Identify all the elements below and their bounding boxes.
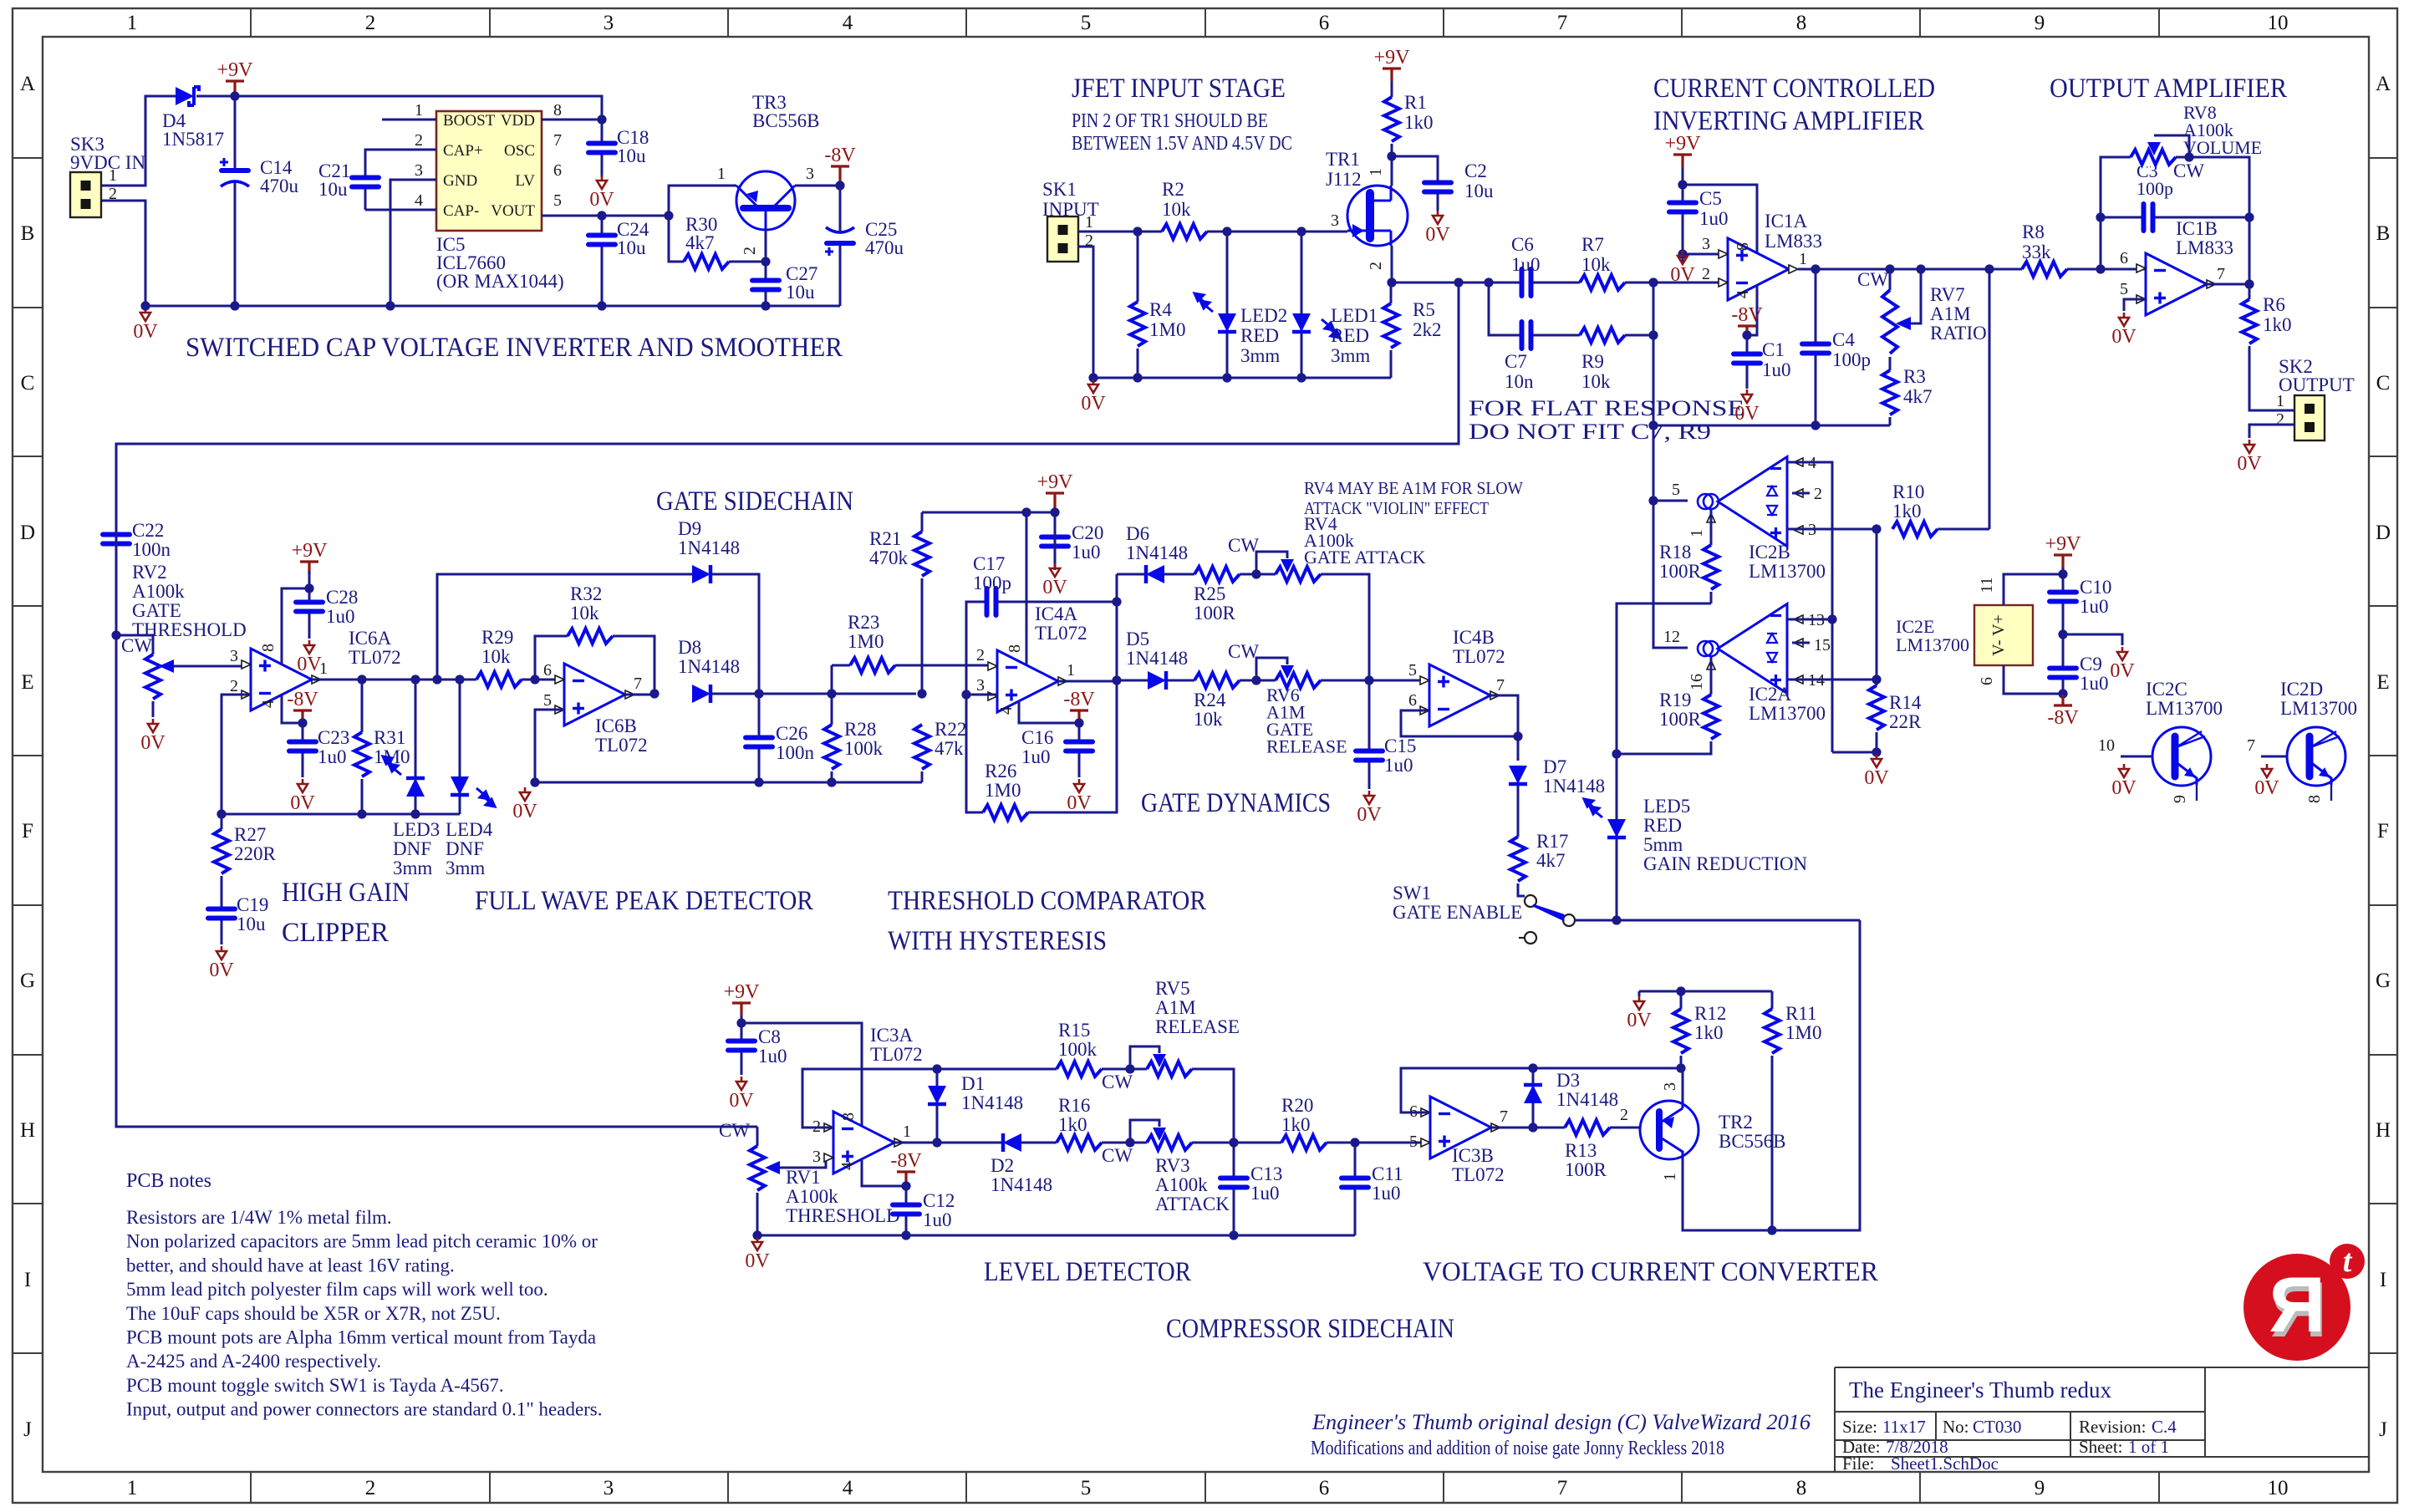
wire 0V stub: [1638, 991, 1641, 996]
wire R31 stem: [361, 680, 364, 814]
wire R23 left riser: [831, 665, 833, 694]
junction R7 node: [1648, 277, 1658, 287]
svg-text:IC2D: IC2D: [2280, 679, 2323, 700]
svg-text:10u: 10u: [786, 282, 815, 303]
svg-text:TL072: TL072: [595, 735, 648, 756]
svg-text:R17: R17: [1536, 831, 1568, 852]
svg-text:7: 7: [1496, 676, 1505, 695]
wire IC3A out row: [894, 1142, 1003, 1144]
resistor R24 10k: [1194, 671, 1240, 690]
resistor R6 1k0: [2240, 299, 2259, 346]
svg-text:7: 7: [1557, 1477, 1568, 1499]
junction RV4 cw: [1251, 569, 1261, 578]
transistor IC2D LM13700: [2287, 727, 2345, 786]
junction dots rail2: [901, 1230, 910, 1240]
svg-text:CW: CW: [719, 1120, 750, 1141]
wire LED1 stem: [1301, 232, 1303, 378]
svg-text:10: 10: [2098, 736, 2115, 755]
svg-text:0V: 0V: [1425, 224, 1450, 246]
svg-text:D3: D3: [1556, 1070, 1580, 1091]
wire IC3B out: [1491, 1127, 1565, 1129]
junction -8V node: [835, 181, 844, 190]
capacitor C12 1u0: [892, 1203, 920, 1216]
junction RV5 cw: [1125, 1064, 1134, 1073]
svg-text:3: 3: [812, 1148, 821, 1166]
svg-text:TL072: TL072: [1453, 646, 1505, 667]
svg-text:GATE ENABLE: GATE ENABLE: [1393, 902, 1522, 923]
junction RV8 cw: [2184, 152, 2193, 161]
junction dots fb row: [1528, 1063, 1537, 1072]
svg-text:1M0: 1M0: [985, 780, 1021, 801]
resistor R2 10k: [1162, 222, 1207, 241]
op-amp IC6B TL072: [564, 664, 625, 725]
resistor R18 100R: [1702, 545, 1720, 592]
svg-text:3: 3: [230, 647, 238, 665]
wire pin13 gnd link: [1832, 751, 1877, 754]
svg-text:1u0: 1u0: [318, 746, 347, 767]
capacitor C25 470u: [826, 231, 854, 246]
ground 0V under SK1: [1088, 379, 1098, 393]
svg-text:SK1: SK1: [1042, 179, 1077, 200]
svg-text:-8V: -8V: [287, 689, 318, 710]
svg-text:I: I: [24, 1269, 31, 1291]
svg-text:3mm: 3mm: [393, 858, 432, 878]
svg-text:RED: RED: [1331, 325, 1369, 346]
junction GND rail: [385, 301, 395, 310]
wire R22 bottom: [921, 771, 924, 782]
svg-text:5mm: 5mm: [1643, 834, 1683, 855]
svg-text:R10: R10: [1892, 481, 1924, 502]
wire TR2 collector: [1682, 1068, 1684, 1101]
wire SW1 to rail: [1575, 919, 1860, 922]
svg-text:4: 4: [415, 191, 423, 210]
wire R19 branch: [1617, 741, 1711, 754]
svg-text:1: 1: [1799, 250, 1807, 268]
svg-text:DNF: DNF: [446, 838, 484, 859]
svg-text:FULL WAVE PEAK DETECTOR: FULL WAVE PEAK DETECTOR: [475, 886, 813, 916]
svg-text:8: 8: [1734, 242, 1752, 251]
wire +9V rail comparator: [922, 512, 1055, 514]
svg-text:1u0: 1u0: [1021, 746, 1051, 767]
wire analog gnd rail: [1653, 425, 1890, 427]
ground 0V under C16: [1074, 779, 1084, 792]
wire RV5 right drop: [1192, 1069, 1234, 1143]
resistor R32 10k: [568, 627, 613, 645]
capacitor C2 10u: [1423, 181, 1452, 194]
junction D3 bottom: [1528, 1123, 1537, 1132]
junction pin3 node: [961, 690, 970, 699]
resistor R28 100k: [823, 725, 841, 771]
svg-text:IC4B: IC4B: [1453, 627, 1495, 648]
wire R18 stem: [1710, 510, 1713, 545]
svg-text:8: 8: [553, 101, 562, 120]
svg-text:Modifications and addition of: Modifications and addition of noise gate…: [1311, 1438, 1724, 1459]
svg-text:E: E: [2376, 671, 2389, 694]
wire R26 loop: [966, 695, 983, 812]
svg-text:1u0: 1u0: [923, 1209, 952, 1230]
svg-text:C2: C2: [1464, 160, 1487, 181]
ground 0V at IC2C: [2119, 764, 2129, 777]
svg-text:1N5817: 1N5817: [162, 129, 224, 150]
resistor R14 22R: [1867, 685, 1886, 732]
svg-text:10k: 10k: [1581, 371, 1611, 392]
potentiometer RV8 wiper: [2147, 142, 2161, 155]
capacitor C26 100n: [745, 736, 773, 749]
connector SK2: [2294, 395, 2325, 440]
svg-text:10: 10: [2268, 12, 2289, 34]
potentiometer RV4 wiper: [1281, 559, 1294, 573]
pin 8 stub IC2D: [2330, 784, 2332, 801]
svg-text:TL072: TL072: [1035, 623, 1087, 644]
svg-text:THRESHOLD: THRESHOLD: [786, 1205, 900, 1226]
svg-text:GATE SIDECHAIN: GATE SIDECHAIN: [656, 486, 853, 517]
svg-text:R15: R15: [1058, 1020, 1090, 1041]
svg-text:CW: CW: [121, 635, 152, 656]
junction dots hysteresis node: [1112, 597, 1121, 606]
junction dots clipper rail: [357, 809, 366, 818]
svg-text:9: 9: [2035, 1477, 2045, 1499]
wire SK1 pin1 to R2: [1078, 231, 1162, 233]
wire +9V rail top: [196, 96, 602, 120]
svg-text:10u: 10u: [237, 914, 266, 934]
junction pin8/C18: [597, 115, 606, 124]
svg-text:1k0: 1k0: [1694, 1022, 1724, 1043]
svg-text:2: 2: [109, 185, 117, 203]
wire R29 feed: [476, 679, 558, 681]
svg-text:RATIO: RATIO: [1930, 323, 1987, 344]
svg-text:1k0: 1k0: [1404, 112, 1434, 133]
capacitor C24 10u: [588, 233, 616, 247]
svg-text:12: 12: [1663, 628, 1680, 646]
wire RV4 cw bracket: [1256, 552, 1287, 574]
svg-text:IC6A: IC6A: [349, 628, 392, 649]
svg-text:VDD: VDD: [501, 112, 535, 130]
svg-text:1: 1: [1367, 168, 1385, 176]
svg-text:CW: CW: [1857, 269, 1888, 290]
wire pin5 gnd stub: [535, 710, 564, 782]
svg-text:R32: R32: [570, 583, 602, 604]
svg-text:1N4148: 1N4148: [1556, 1089, 1618, 1110]
svg-text:0V: 0V: [1081, 393, 1106, 415]
wire R20 to IC3B: [1327, 1142, 1423, 1144]
ground 0V under SK3: [140, 308, 150, 321]
svg-text:RV7: RV7: [1930, 284, 1965, 305]
junction R9 node: [1648, 330, 1658, 339]
wire pin4 drop: [1019, 700, 1079, 723]
diode D7 1N4148: [1509, 766, 1527, 784]
ground 0V under C15: [1364, 791, 1374, 804]
svg-text:RED: RED: [1643, 815, 1682, 836]
svg-text:V- V+: V- V+: [1989, 614, 2008, 656]
wire R17 to SW1: [1518, 883, 1525, 896]
svg-text:D6: D6: [1126, 523, 1149, 544]
resistor R25 100R: [1194, 565, 1240, 583]
svg-text:LM13700: LM13700: [1896, 634, 1969, 655]
capacitor C10 1u0: [2049, 590, 2077, 603]
transistor TR2 BC556B: [1640, 1101, 1699, 1159]
svg-text:10u: 10u: [617, 237, 646, 258]
wire R12 top link: [1639, 990, 1772, 993]
svg-text:1k0: 1k0: [1281, 1114, 1311, 1135]
svg-text:C8: C8: [758, 1026, 781, 1047]
potentiometer RV5 wiper: [1153, 1054, 1166, 1067]
potentiometer RV6 wiper: [1281, 665, 1294, 679]
svg-text:100p: 100p: [1832, 349, 1871, 370]
resistor R17 4k7: [1509, 837, 1527, 883]
junction dots gnd rail: [1648, 420, 1658, 430]
svg-text:0V: 0V: [209, 960, 234, 981]
junction node2: [1387, 277, 1396, 287]
svg-text:F: F: [22, 820, 33, 843]
svg-text:1u0: 1u0: [1511, 254, 1541, 275]
junction C8 top: [736, 1018, 746, 1027]
led LED2 red 3mm: [1218, 313, 1236, 332]
wire pin3 wire: [966, 694, 997, 696]
svg-text:LM13700: LM13700: [2146, 698, 2223, 719]
svg-text:2: 2: [1620, 1106, 1628, 1124]
capacitor C1 1u0: [1733, 352, 1761, 365]
svg-text:RV2: RV2: [132, 562, 167, 583]
svg-text:IC2A: IC2A: [1749, 684, 1792, 705]
wire R7 to pin2 node: [1625, 282, 1728, 284]
capacitor C17 100p: [985, 588, 998, 616]
resistor R9 10k: [1580, 326, 1625, 344]
svg-text:R7: R7: [1581, 234, 1604, 255]
transistor TR1 J112: [1347, 186, 1408, 246]
svg-text:1N4148: 1N4148: [1126, 542, 1188, 563]
svg-text:3: 3: [1702, 235, 1710, 253]
wire D3 stem: [1532, 1068, 1535, 1128]
svg-text:4: 4: [259, 700, 278, 708]
junction 0V: [140, 301, 150, 310]
svg-text:C19: C19: [237, 894, 268, 915]
junction SK1 gnd: [1088, 373, 1098, 382]
wire IC5 pin1 stub: [382, 119, 436, 121]
svg-text:C: C: [2376, 372, 2391, 395]
svg-text:RV1: RV1: [786, 1167, 821, 1188]
resistor RV3 pot: [1147, 1133, 1192, 1152]
junction R29/R32: [530, 675, 539, 684]
wire input 0V rail: [1093, 377, 1391, 379]
svg-text:1M0: 1M0: [848, 631, 884, 652]
svg-text:D5: D5: [1126, 629, 1149, 649]
power +9V at C28: [300, 562, 318, 574]
resistor RV7 pot: [1881, 290, 1899, 357]
junction dots output row: [1811, 264, 1820, 273]
svg-text:Size:: Size:: [1842, 1417, 1877, 1437]
ota IC2B LM13700: [1718, 457, 1787, 547]
svg-text:LED1: LED1: [1331, 305, 1378, 326]
wire feedback down-left: [116, 283, 1459, 1127]
junction VOUT node: [664, 211, 673, 220]
svg-text:1N4148: 1N4148: [961, 1092, 1023, 1113]
svg-text:3: 3: [604, 12, 614, 34]
svg-text:R14: R14: [1889, 692, 1922, 713]
wire R8 to IC1B: [2067, 268, 2146, 271]
ground 0V between caps: [2117, 647, 2127, 660]
svg-text:10u: 10u: [1464, 181, 1494, 201]
resistor R3 4k7: [1881, 370, 1899, 417]
wire pin8 up: [282, 588, 309, 665]
led LED4 dnf: [451, 776, 469, 795]
wire R21 chain: [921, 512, 924, 694]
svg-text:RV3: RV3: [1155, 1155, 1190, 1176]
svg-text:R9: R9: [1581, 351, 1604, 372]
wire IC4A out: [1058, 680, 1117, 683]
svg-text:better, and should have at lea: better, and should have at least 16V rat…: [126, 1255, 455, 1275]
junction R11 bottom: [1767, 1225, 1776, 1235]
op-amp IC1B LM833: [2146, 253, 2207, 315]
svg-text:R: R: [2269, 1260, 2325, 1348]
svg-text:C16: C16: [1021, 727, 1053, 748]
wire IC2E pin11: [2004, 574, 2063, 605]
wire sidechain gnd rail2: [757, 1235, 1355, 1237]
svg-text:4: 4: [843, 12, 853, 34]
wire RV4 right drop: [1321, 574, 1369, 680]
capacitor C9 1u0: [2049, 666, 2077, 680]
op-amp IC1A LM833: [1728, 238, 1789, 300]
wire RV6 to IC4B: [1321, 680, 1421, 682]
resistor R10 1k0: [1892, 520, 1938, 538]
svg-text:10k: 10k: [481, 646, 511, 667]
junction R21/R22: [917, 689, 926, 698]
svg-text:100p: 100p: [2137, 178, 2173, 199]
svg-text:1N4148: 1N4148: [991, 1174, 1052, 1195]
wire C20 stem: [1054, 512, 1057, 570]
svg-text:GATE DYNAMICS: GATE DYNAMICS: [1141, 788, 1331, 818]
svg-text:E: E: [21, 671, 33, 694]
svg-text:0V: 0V: [1734, 403, 1760, 425]
svg-text:R20: R20: [1281, 1095, 1313, 1116]
svg-text:BETWEEN 1.5V AND 4.5V DC: BETWEEN 1.5V AND 4.5V DC: [1072, 133, 1292, 155]
wire IC6B out: [625, 694, 654, 696]
svg-text:CT030: CT030: [1973, 1417, 2021, 1437]
svg-text:1: 1: [127, 1477, 138, 1499]
wire R12 chain: [1680, 991, 1683, 1068]
svg-text:9: 9: [2035, 12, 2045, 34]
pin arrows IC2B: [1794, 458, 1803, 466]
svg-text:1: 1: [1067, 661, 1075, 680]
svg-text:4: 4: [843, 1477, 853, 1499]
svg-text:15: 15: [1814, 636, 1831, 654]
svg-text:1u0: 1u0: [2080, 673, 2109, 694]
resistor R20 1k0: [1281, 1133, 1327, 1152]
svg-text:0V: 0V: [745, 1250, 770, 1272]
wire IC5 pin5 row: [542, 215, 669, 217]
wire RV7 to R3: [1889, 357, 1892, 370]
svg-text:2: 2: [365, 1477, 376, 1499]
capacitor C3 100p: [2142, 203, 2155, 232]
wire C23 stem: [302, 723, 304, 777]
junction R19 tap: [1612, 749, 1621, 758]
svg-text:7: 7: [1500, 1107, 1508, 1126]
wire R13 to TR2: [1610, 1127, 1640, 1129]
svg-text:100k: 100k: [1058, 1039, 1098, 1060]
svg-text:C6: C6: [1511, 234, 1534, 255]
wire clipper gnd rail: [222, 813, 460, 816]
svg-text:2: 2: [2276, 410, 2284, 429]
svg-text:IC6B: IC6B: [595, 715, 637, 736]
ground 0V at R12: [1634, 996, 1644, 1010]
svg-text:G: G: [2376, 970, 2391, 992]
wire VOUT elbow up to TR3 base: [669, 186, 736, 216]
svg-text:BC556B: BC556B: [1719, 1131, 1786, 1152]
svg-text:C26: C26: [776, 723, 807, 744]
capacitor C27 10u: [751, 278, 780, 292]
switch SW1 gate enable: [1525, 895, 1536, 907]
svg-text:+9V: +9V: [1037, 471, 1074, 493]
junction RV6 cw: [1251, 675, 1261, 685]
svg-text:C5: C5: [1699, 188, 1722, 209]
wire R10 riser: [1989, 269, 1991, 529]
power +9V at D4: [226, 81, 244, 97]
wire pin12 feed: [1653, 501, 1688, 648]
ground 0V under C2: [1433, 211, 1443, 224]
wire R27 stem: [221, 814, 223, 829]
svg-text:10k: 10k: [1194, 709, 1223, 730]
svg-text:10k: 10k: [1162, 199, 1191, 220]
svg-text:100n: 100n: [132, 539, 171, 560]
svg-text:-8V: -8V: [1063, 689, 1095, 710]
wire R30 branch: [669, 216, 684, 262]
capacitor C18 10u: [588, 141, 616, 155]
svg-text:0V: 0V: [1627, 1010, 1652, 1031]
wire RV2 bottom: [152, 701, 155, 717]
resistor R30 4k7: [684, 252, 729, 271]
svg-text:VOLUME: VOLUME: [2183, 137, 2262, 158]
wire pin2 feedback: [802, 1069, 937, 1128]
svg-text:1: 1: [717, 165, 726, 183]
capacitor C22 100n: [102, 532, 130, 546]
resistor R1 1k0: [1383, 97, 1401, 144]
svg-text:5: 5: [1408, 661, 1417, 680]
svg-text:2: 2: [230, 677, 238, 695]
svg-text:2: 2: [1367, 262, 1385, 270]
svg-text:4k7: 4k7: [1903, 386, 1933, 407]
svg-text:BOOST: BOOST: [443, 112, 496, 130]
svg-text:0V: 0V: [2254, 777, 2279, 799]
wire R18 bottom: [1710, 592, 1713, 603]
wire RV2 elbow: [116, 635, 153, 654]
svg-text:0V: 0V: [2237, 453, 2262, 475]
svg-text:DNF: DNF: [393, 838, 431, 859]
svg-text:COMPRESSOR SIDECHAIN: COMPRESSOR SIDECHAIN: [1166, 1314, 1454, 1344]
wire C26 stem: [758, 694, 761, 782]
junction C28 top: [304, 583, 313, 593]
svg-text:C: C: [21, 372, 35, 395]
svg-text:100p: 100p: [973, 573, 1011, 593]
svg-text:100k: 100k: [844, 738, 884, 759]
ground 0V under C19: [216, 946, 227, 960]
power -8V at C12: [897, 1172, 915, 1184]
junction D4/+9V: [230, 91, 239, 100]
wire R30 to emitter: [729, 261, 766, 263]
resistor R16 1k0: [1057, 1133, 1102, 1152]
junction R12 top: [1676, 986, 1685, 995]
wire vertical 1978: [1653, 283, 1655, 425]
svg-text:IC4A: IC4A: [1035, 603, 1078, 624]
wire SK2 pin2 gnd: [2249, 425, 2294, 438]
wire RV1 input: [756, 1127, 759, 1146]
svg-text:R23: R23: [848, 612, 879, 633]
wire RV2 wiper to pin3: [174, 665, 244, 668]
svg-text:C1: C1: [1762, 339, 1785, 360]
svg-text:2: 2: [741, 247, 759, 255]
wire IC5 pin8 to C18: [542, 119, 602, 121]
wire C22 node: [115, 444, 118, 635]
junction RV1 gnd: [752, 1230, 761, 1240]
op-amp IC4B TL072: [1429, 664, 1490, 726]
